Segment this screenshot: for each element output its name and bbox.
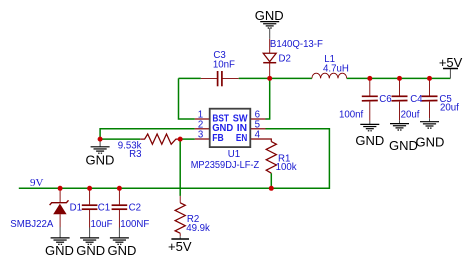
svg-text:+5V: +5V (439, 55, 463, 70)
svg-text:4.7uH: 4.7uH (323, 63, 349, 74)
svg-text:MP2359DJ-LF-Z: MP2359DJ-LF-Z (191, 160, 260, 171)
svg-text:9V: 9V (30, 177, 44, 189)
svg-text:SMBJ22A: SMBJ22A (10, 219, 54, 230)
svg-text:C1: C1 (98, 203, 110, 214)
svg-text:20uf: 20uf (401, 110, 420, 121)
svg-text:GND: GND (76, 243, 105, 258)
svg-text:GND: GND (355, 133, 384, 148)
svg-text:FB: FB (212, 133, 224, 144)
svg-text:GND: GND (389, 138, 418, 153)
svg-text:4: 4 (255, 130, 261, 141)
svg-text:GND: GND (107, 243, 136, 258)
svg-text:100nf: 100nf (339, 110, 364, 121)
svg-text:D2: D2 (279, 54, 291, 65)
svg-text:GND: GND (416, 135, 445, 150)
svg-text:3: 3 (198, 130, 203, 141)
svg-text:100NF: 100NF (120, 219, 149, 230)
svg-text:10uF: 10uF (91, 219, 113, 230)
svg-text:C2: C2 (129, 203, 141, 214)
svg-text:100k: 100k (276, 162, 297, 173)
svg-text:C4: C4 (410, 94, 423, 105)
svg-text:GND: GND (45, 243, 74, 258)
svg-text:B140Q-13-F: B140Q-13-F (270, 39, 323, 50)
svg-text:GND: GND (255, 8, 284, 23)
svg-text:D1: D1 (70, 203, 82, 214)
svg-text:49.9k: 49.9k (186, 223, 210, 234)
svg-text:C6: C6 (379, 94, 391, 105)
svg-text:20uf: 20uf (440, 102, 459, 113)
svg-text:10nF: 10nF (213, 60, 235, 71)
svg-text:U1: U1 (228, 149, 240, 160)
svg-text:R3: R3 (129, 149, 141, 160)
svg-text:GND: GND (85, 152, 114, 167)
svg-text:+5V: +5V (168, 239, 192, 254)
svg-text:EN: EN (236, 133, 247, 144)
